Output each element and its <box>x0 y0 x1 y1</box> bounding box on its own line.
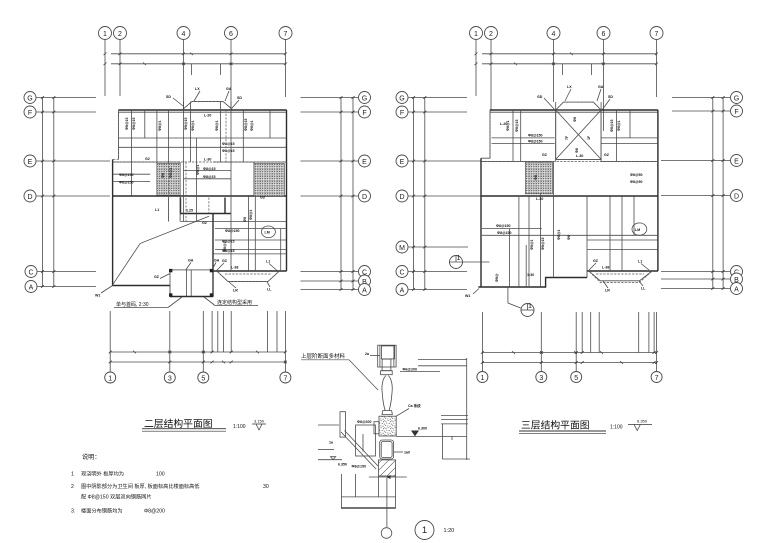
roof square <box>556 110 601 159</box>
top wall inner line <box>119 111 287 113</box>
outer wall left upper R <box>489 110 491 158</box>
detail ref leader <box>349 360 378 390</box>
row bubble F left R <box>396 106 408 118</box>
svg-text:30: 30 <box>263 484 269 490</box>
svg-text:Φ8@: Φ8@ <box>495 273 499 282</box>
left dimension chain vertical 2 <box>53 98 55 287</box>
svg-text:LR: LR <box>605 289 610 293</box>
svg-text:1:100: 1:100 <box>610 425 623 431</box>
outer wall left lower R <box>480 158 482 287</box>
svg-text:1: 1 <box>474 31 478 38</box>
beam y138 <box>119 137 287 139</box>
row line A right R <box>661 288 730 290</box>
column line x243 <box>242 110 244 162</box>
svg-text:Φ8@1: Φ8@1 <box>530 240 534 250</box>
detail number circle <box>415 521 434 540</box>
bottom grid bubble 5 R <box>571 372 582 383</box>
beam y181 room left <box>113 181 151 183</box>
svg-text:Φ8@15: Φ8@15 <box>125 118 129 130</box>
column x616 R <box>615 110 617 162</box>
grid line 6 vertical R <box>603 40 605 131</box>
porch bottom dark <box>170 296 213 298</box>
detail ref underline <box>301 359 349 361</box>
grid bubble 4 top R <box>547 27 560 40</box>
grid bubble 6 top R <box>597 27 610 40</box>
svg-text:D: D <box>399 194 404 201</box>
svg-text:D: D <box>27 194 32 201</box>
svg-text:楼面分布钢筋均为: 楼面分布钢筋均为 <box>81 507 123 515</box>
title right underline 2 <box>519 432 606 434</box>
bottom extension lines <box>109 311 111 372</box>
row line F left <box>37 111 97 113</box>
outer wall solid overlay bottom <box>113 285 170 287</box>
extra column x248 <box>247 196 249 271</box>
svg-text:2: 2 <box>71 484 74 490</box>
grid 4 through plan <box>183 102 185 222</box>
grid line 2 vertical <box>119 40 121 96</box>
column line x144 <box>144 110 146 138</box>
extra rotated labels center strip <box>161 168 253 222</box>
svg-text:Φ8@1: Φ8@1 <box>249 210 253 220</box>
svg-text:Φ8@1: Φ8@1 <box>158 121 162 131</box>
right dimension chain vertical 1 <box>340 98 342 290</box>
handrail cap outer <box>378 345 396 367</box>
row line A right <box>301 289 359 291</box>
grid bubble 7 top R <box>650 27 663 40</box>
dimension ticks <box>41 53 725 364</box>
svg-text:SD: SD <box>237 96 242 100</box>
extra horizontal labels center strip <box>203 167 215 179</box>
svg-text:Φ8@15: Φ8@15 <box>203 175 215 179</box>
svg-text:F: F <box>362 110 366 117</box>
row bubble F left <box>24 106 36 118</box>
svg-text:Φ8@150: Φ8@150 <box>352 465 366 469</box>
horizontal small labels right plan <box>496 122 642 277</box>
beam section rounded <box>380 440 394 459</box>
vase base trapezoid <box>382 411 392 415</box>
bottom grid bubble 7 <box>280 372 291 383</box>
svg-text:W1: W1 <box>95 294 100 298</box>
svg-text:GA: GA <box>598 85 604 89</box>
row line B right <box>301 280 359 282</box>
svg-text:3.150: 3.150 <box>254 419 265 424</box>
wall row D R dark <box>481 195 658 197</box>
svg-text:SD: SD <box>166 95 171 99</box>
svg-text:7: 7 <box>283 375 287 382</box>
svg-text:三层结构平面图: 三层结构平面图 <box>521 419 590 432</box>
column x540 R <box>540 162 542 288</box>
svg-text:Φ8: Φ8 <box>534 175 538 180</box>
svg-text:Φ8@1: Φ8@1 <box>215 121 219 131</box>
row E solid under square R <box>556 158 601 160</box>
title left underline 2 <box>142 430 226 432</box>
svg-text:现浇明外 板厚均为: 现浇明外 板厚均为 <box>81 470 124 478</box>
svg-text:GA: GA <box>188 259 194 263</box>
row bubble E right R <box>731 155 743 167</box>
beam y174 room left <box>113 173 151 175</box>
svg-text:Φ8@15: Φ8@15 <box>244 119 248 131</box>
row bubble F right R <box>731 105 743 117</box>
svg-text:Φ8@1: Φ8@1 <box>250 121 254 131</box>
beam y143 right part R <box>601 143 658 145</box>
row bubble E left R <box>396 155 408 167</box>
row bubble C right R <box>731 266 743 278</box>
beam y240 R <box>587 239 658 241</box>
svg-text:6: 6 <box>602 31 606 38</box>
stair hatch R <box>525 162 552 194</box>
row line G left <box>37 97 97 99</box>
svg-text:连定结构型采用: 连定结构型采用 <box>217 299 252 306</box>
svg-text:4: 4 <box>182 31 186 38</box>
row line A left <box>38 286 97 288</box>
baluster vase <box>382 376 392 411</box>
column line x157 stair left <box>156 110 158 196</box>
grid bubble 7 top <box>279 27 292 40</box>
grid bubble 2 top <box>114 27 127 40</box>
rotated labels left plan <box>125 118 254 252</box>
rebar tick <box>362 434 364 452</box>
closet divider <box>208 198 210 214</box>
grid line 1 vertical R <box>475 40 477 96</box>
wall x213 dark <box>212 214 214 297</box>
small circle bottom <box>381 528 392 539</box>
top dimension band line 2 R <box>482 63 657 65</box>
title left level symbol <box>252 424 266 430</box>
ellipse LM <box>261 226 275 238</box>
handrail neck <box>382 359 391 371</box>
svg-text:M: M <box>399 245 405 252</box>
column x587 lower R <box>586 196 588 278</box>
svg-text:L-38: L-38 <box>602 266 609 270</box>
band stub verticals <box>191 64 193 75</box>
wall row E R <box>481 161 658 163</box>
band tick marks R <box>514 53 605 66</box>
svg-text:C: C <box>28 270 33 277</box>
row bubble G right R <box>731 92 743 104</box>
svg-text:E: E <box>362 159 367 166</box>
svg-text:F: F <box>28 110 32 117</box>
grid 6 through plan <box>230 102 232 272</box>
svg-text:LM: LM <box>265 231 270 235</box>
bottom dimension chain line 1 <box>110 351 285 353</box>
outer wall solid overlay top <box>119 109 287 111</box>
svg-text:Φ8@15: Φ8@15 <box>222 249 234 253</box>
bottom beam above trapezoid <box>213 270 287 272</box>
svg-text:4: 4 <box>552 31 556 38</box>
svg-text:Φ8@1: Φ8@1 <box>617 121 621 131</box>
svg-text:L1: L1 <box>155 208 159 212</box>
bottom dimension chain line 2 <box>110 361 285 363</box>
handrail cap inner <box>381 346 394 359</box>
roof diagonal 2 <box>556 110 601 159</box>
row bubble E left <box>24 155 36 167</box>
row bubble D left R <box>396 190 408 202</box>
svg-text:3: 3 <box>168 375 172 382</box>
stair bottom dark wall <box>181 213 232 215</box>
row line G right <box>301 97 359 99</box>
svg-text:GZ: GZ <box>542 153 548 157</box>
svg-text:7: 7 <box>655 375 659 382</box>
svg-text:Φ8: Φ8 <box>575 148 579 153</box>
bottom grid bubble 3 R <box>536 372 547 383</box>
bottom chain ticks <box>133 351 287 364</box>
svg-text:Φ8@15: Φ8@15 <box>184 118 188 130</box>
svg-text:7: 7 <box>655 31 659 38</box>
row bubble D right <box>359 190 371 202</box>
stair hatch right <box>254 163 285 196</box>
column line x280 <box>280 229 282 272</box>
row bubble D left <box>24 190 36 202</box>
row line E left <box>37 160 111 162</box>
beam y249 R <box>587 249 658 251</box>
beam y254 <box>213 253 287 255</box>
porch corner column 3 <box>169 293 172 296</box>
row bubble C left R <box>396 266 408 278</box>
svg-text:E: E <box>28 159 33 166</box>
svg-text:1: 1 <box>108 375 112 382</box>
svg-text:LM: LM <box>635 228 640 232</box>
svg-text:Φ8@1: Φ8@1 <box>557 230 561 240</box>
rotated labels right plan <box>495 117 621 282</box>
column grid4 R <box>553 162 555 278</box>
svg-text:G: G <box>734 96 739 103</box>
row bubble A left R <box>396 284 408 296</box>
svg-text:Φ8@15: Φ8@15 <box>222 149 234 153</box>
bottom trapezoid bay <box>217 271 279 282</box>
column x513 R <box>512 110 514 162</box>
svg-text:1:30: 1:30 <box>527 273 534 277</box>
svg-text:1: 1 <box>457 255 461 262</box>
row line F left R <box>409 111 468 113</box>
interior vertical near marker leader R <box>509 229 511 287</box>
right dimension chain vertical 1 R <box>712 98 714 289</box>
row bubble A right R <box>731 283 743 295</box>
svg-text:A: A <box>29 285 34 292</box>
svg-text:Φ8@15: Φ8@15 <box>222 240 234 244</box>
outer wall step R <box>481 157 490 159</box>
interior dashed wall traces <box>168 162 170 222</box>
svg-text:SD: SD <box>608 95 613 99</box>
svg-text:F: F <box>400 110 404 117</box>
beam y143 R <box>492 143 555 145</box>
svg-text:Φ8@15: Φ8@15 <box>541 238 545 250</box>
closet left wall <box>180 198 182 214</box>
right wall vertical <box>466 358 468 460</box>
left dimension chain vertical 1 <box>42 98 44 287</box>
row line G right R <box>672 97 730 99</box>
svg-text:Φ8@200: Φ8@200 <box>357 420 371 424</box>
outer wall solid right R <box>657 110 659 271</box>
beam y170 center <box>184 170 232 172</box>
beam y138 R <box>492 137 555 139</box>
row line C left R <box>409 271 468 273</box>
svg-text:L-30: L-30 <box>204 158 211 162</box>
row bubble F right <box>359 106 371 118</box>
left strut diagonals <box>341 432 376 469</box>
grid line 4 vertical R <box>553 40 555 102</box>
porch corner column 2 <box>210 269 213 272</box>
svg-text:L-20: L-20 <box>204 114 211 118</box>
outer wall right plan dashed <box>478 102 658 287</box>
bottom grid bubble 5 <box>198 372 209 383</box>
row bubble B right <box>359 275 371 287</box>
svg-text:A: A <box>400 288 405 295</box>
row line D left R <box>409 195 482 197</box>
row bubble C right <box>359 266 371 278</box>
left level triangle <box>331 457 336 460</box>
outer wall solid overlay left upper <box>118 110 120 159</box>
beam y235 R <box>482 234 658 236</box>
row line E right <box>301 160 359 162</box>
svg-text:Φ8: Φ8 <box>161 173 165 178</box>
porch corner column 4 <box>210 293 213 296</box>
svg-text:单与首码, 2:30: 单与首码, 2:30 <box>116 301 149 308</box>
svg-text:Φ8@150: Φ8@150 <box>119 180 133 184</box>
grid bubble 4 top <box>177 27 190 40</box>
svg-text:Φ8@150: Φ8@150 <box>528 140 542 144</box>
svg-text:LR: LR <box>233 289 238 293</box>
concrete stipple block <box>379 416 396 436</box>
svg-text:L-30: L-30 <box>576 154 583 158</box>
level line 6.300 right <box>396 435 441 437</box>
square left edge down R <box>555 102 557 161</box>
column line x190 <box>190 102 192 163</box>
svg-text:6.350: 6.350 <box>637 419 648 424</box>
bottom dimension chain line 1 R <box>482 352 656 354</box>
svg-text:Φ8@1: Φ8@1 <box>169 168 173 178</box>
grid bubble 2 top R <box>485 27 498 40</box>
row bubble G right <box>359 92 371 104</box>
svg-text:D: D <box>362 194 367 201</box>
svg-text:二层结构平面图: 二层结构平面图 <box>144 417 213 430</box>
right dimension chain vertical 2 R <box>722 98 724 289</box>
column x630 R <box>629 110 631 138</box>
grid bubble 1 top R <box>470 27 483 40</box>
row line D left <box>37 195 111 197</box>
row bubble E right <box>359 155 371 167</box>
column line x270 <box>269 110 271 138</box>
column x610 lower R <box>609 196 611 271</box>
svg-text:LX: LX <box>195 87 200 91</box>
row line E left R <box>409 160 482 162</box>
column x520 R <box>520 110 522 162</box>
column line x196 <box>196 138 198 222</box>
outer wall solid overlay right <box>286 110 288 271</box>
svg-text:6.350: 6.350 <box>338 463 347 467</box>
roof bay trapezoid top R <box>556 102 601 110</box>
rail double lines right <box>418 359 467 361</box>
svg-text:G2: G2 <box>145 157 150 161</box>
right wall tick <box>451 436 453 440</box>
column x634 lower R <box>633 196 635 235</box>
row line M left R <box>409 246 469 248</box>
right wall horizontals <box>441 415 468 417</box>
svg-text:Φ6@200: Φ6@200 <box>403 368 417 372</box>
row line D right R <box>661 195 730 197</box>
grid line 1 vertical <box>104 40 106 96</box>
column line x131 <box>131 110 133 196</box>
outer wall solid overlay left lower <box>112 159 114 285</box>
grid line 4 vertical <box>183 40 185 110</box>
svg-text:Φ8: Φ8 <box>567 235 571 240</box>
svg-text:Φ8@15: Φ8@15 <box>132 118 136 130</box>
svg-text:1: 1 <box>422 525 427 536</box>
section marker 1 upper <box>450 256 463 269</box>
left dimension chain vertical 1 R <box>413 98 415 290</box>
bottom extension lines R <box>481 312 483 372</box>
svg-text:L-20: L-20 <box>500 122 507 126</box>
porch inner vertical 2 <box>190 270 192 297</box>
svg-text:L1: L1 <box>266 260 270 264</box>
svg-text:G: G <box>399 96 404 103</box>
title right underline 1 <box>519 430 606 432</box>
title right level symbol <box>628 425 652 431</box>
svg-text:GA: GA <box>214 259 220 263</box>
svg-text:G: G <box>27 96 32 103</box>
terrace diagonal <box>113 216 209 284</box>
top dimension band line 1 R <box>482 53 657 55</box>
svg-text:Φ8@15: Φ8@15 <box>203 167 215 171</box>
svg-text:L-38: L-38 <box>231 266 238 270</box>
svg-text:1: 1 <box>528 303 532 310</box>
footing U channel <box>341 474 395 508</box>
svg-text:Φ8@150: Φ8@150 <box>225 229 239 233</box>
svg-text:GA: GA <box>226 87 232 91</box>
svg-text:1:100: 1:100 <box>233 424 246 430</box>
row line F right <box>301 111 359 113</box>
svg-text:F: F <box>734 109 738 116</box>
trapezoid inner dashed R <box>596 273 644 275</box>
svg-text:2: 2 <box>118 31 122 38</box>
column x526 lower R <box>525 245 527 287</box>
svg-text:Φ8@150: Φ8@150 <box>496 224 510 228</box>
column line x168 <box>168 110 170 222</box>
left small leader lines <box>318 424 339 426</box>
outer wall bottom dark R <box>478 278 587 288</box>
svg-text:GD: GD <box>537 95 543 99</box>
row line C left <box>38 271 97 273</box>
svg-text:Φ8@50: Φ8@50 <box>630 173 642 177</box>
row line D right <box>301 195 359 197</box>
svg-text:W1: W1 <box>465 294 470 298</box>
svg-text:Φ8@150: Φ8@150 <box>528 134 542 138</box>
porch corner column 1 <box>169 269 172 272</box>
wall row E <box>113 161 287 163</box>
outer wall left plan <box>113 102 287 297</box>
right wall bottom horizontal <box>442 458 470 460</box>
right dimension chain vertical 2 <box>352 98 354 290</box>
beam y228 <box>215 228 287 230</box>
row bubble B right R <box>731 273 743 285</box>
svg-text:D: D <box>734 194 739 201</box>
band tick marks <box>143 53 233 66</box>
svg-text:1.25: 1.25 <box>186 209 193 213</box>
square right edge down R <box>600 102 602 161</box>
svg-text:7: 7 <box>284 31 288 38</box>
svg-text:L1: L1 <box>638 260 642 264</box>
svg-text:E: E <box>734 159 739 166</box>
beam y240 <box>215 239 287 241</box>
svg-text:说明：: 说明： <box>82 453 101 461</box>
svg-text:1a0: 1a0 <box>404 451 410 455</box>
outer wall solid top R <box>490 109 658 111</box>
left notch rect <box>374 422 379 434</box>
svg-text:GZ: GZ <box>604 153 610 157</box>
trapezoid inner dashed <box>225 273 271 275</box>
svg-text:GZ: GZ <box>154 275 160 279</box>
svg-text:上层阶断面多材料: 上层阶断面多材料 <box>301 352 346 360</box>
bottom grid bubble 7 R <box>651 372 662 383</box>
